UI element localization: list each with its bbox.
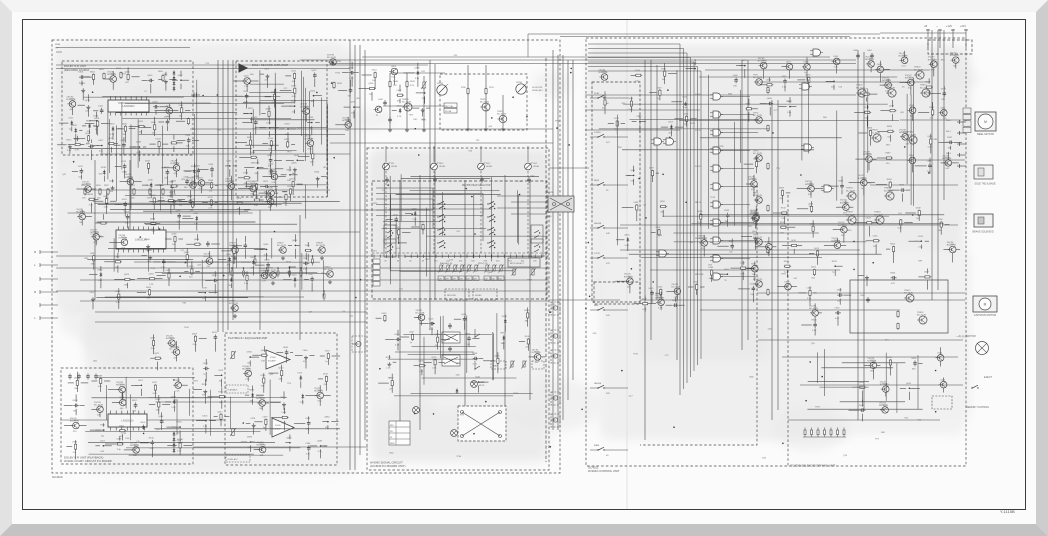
wire bbox=[80, 404, 85, 406]
transistor TR6167 bbox=[196, 180, 204, 187]
wire bbox=[114, 278, 124, 280]
wire bbox=[92, 145, 99, 147]
wire bbox=[124, 208, 126, 216]
wire bbox=[118, 288, 120, 293]
wire bbox=[180, 84, 182, 90]
wire bbox=[218, 259, 226, 261]
svg-text:REC: REC bbox=[439, 163, 444, 165]
wire bbox=[863, 186, 865, 195]
wire bbox=[243, 113, 248, 115]
frame left band bbox=[0, 0, 12, 536]
svg-text:D658: D658 bbox=[804, 62, 810, 64]
wire bbox=[238, 188, 250, 190]
eq trimmer VR50 bbox=[484, 265, 490, 281]
wire bbox=[854, 111, 864, 113]
wire bbox=[317, 180, 319, 188]
svg-text:Q622: Q622 bbox=[811, 267, 817, 269]
wire bbox=[311, 283, 313, 292]
wire bbox=[616, 127, 618, 135]
wire bbox=[260, 248, 266, 250]
wire bbox=[686, 68, 692, 70]
junction bbox=[289, 267, 291, 269]
wire bbox=[760, 103, 767, 105]
wire bbox=[308, 416, 310, 420]
resistor R6179 bbox=[285, 194, 287, 201]
scan blotch bbox=[522, 183, 562, 223]
wire bbox=[744, 69, 746, 78]
wire bbox=[286, 159, 294, 161]
wire bbox=[205, 424, 207, 433]
junction bbox=[266, 249, 268, 251]
wire bbox=[529, 356, 535, 358]
transport switch sub-box bbox=[592, 82, 640, 302]
wire bbox=[468, 342, 470, 347]
resistor R17338 bbox=[527, 338, 529, 345]
svg-text:2.2K: 2.2K bbox=[244, 86, 249, 88]
wire bbox=[928, 78, 930, 83]
wire bbox=[283, 279, 292, 281]
svg-text:Q685: Q685 bbox=[286, 437, 292, 439]
wire bbox=[229, 263, 231, 273]
wire bbox=[129, 185, 131, 189]
svg-text:REW: REW bbox=[390, 443, 395, 445]
junction bbox=[289, 442, 291, 444]
wire bbox=[244, 167, 254, 169]
wire bbox=[82, 92, 84, 101]
svg-text:Q688: Q688 bbox=[74, 378, 80, 380]
linkage tick bbox=[410, 255, 412, 259]
svg-text:BC-317B: BC-317B bbox=[416, 313, 425, 315]
svg-text:D634: D634 bbox=[502, 316, 508, 318]
wire bbox=[105, 78, 110, 80]
svg-text:33K: 33K bbox=[122, 134, 126, 136]
wire bbox=[270, 164, 272, 175]
resistor R10255 bbox=[369, 88, 376, 90]
wire bbox=[158, 200, 165, 202]
svg-text:BC-317B: BC-317B bbox=[917, 314, 926, 316]
wire bbox=[270, 127, 278, 129]
svg-text:R615: R615 bbox=[261, 270, 267, 272]
svg-text:R621: R621 bbox=[151, 122, 157, 124]
svg-text:D639: D639 bbox=[250, 152, 256, 154]
ground bbox=[282, 402, 286, 406]
wire bbox=[117, 253, 119, 259]
svg-text:D697: D697 bbox=[649, 168, 655, 170]
wire bbox=[126, 283, 128, 288]
transistor TR5145 bbox=[124, 174, 133, 185]
svg-text:D620: D620 bbox=[336, 61, 342, 63]
wire bbox=[118, 128, 122, 130]
svg-text:Q640: Q640 bbox=[267, 155, 273, 157]
wire bbox=[376, 204, 483, 206]
resistor R601 bbox=[103, 73, 105, 80]
switch mode F.FWD bbox=[597, 134, 604, 138]
svg-text:Q682: Q682 bbox=[940, 107, 946, 109]
wire bbox=[721, 276, 754, 278]
scan blotch bbox=[658, 160, 766, 184]
capacitor C5139 bbox=[123, 164, 127, 170]
svg-text:S20: S20 bbox=[496, 261, 499, 263]
linkage tick bbox=[491, 255, 493, 259]
wire bbox=[93, 125, 98, 127]
IC IC603 bbox=[108, 411, 147, 431]
junction bbox=[323, 290, 325, 292]
wire bbox=[887, 79, 889, 82]
module box: left main board outline bbox=[52, 40, 560, 473]
svg-text:S14: S14 bbox=[459, 261, 462, 263]
wire bbox=[930, 93, 941, 95]
junction bbox=[250, 441, 252, 443]
svg-text:C661: C661 bbox=[766, 79, 772, 81]
wire bbox=[422, 230, 424, 234]
wire bbox=[166, 176, 168, 185]
diode D5138 bbox=[103, 170, 106, 175]
svg-text:R638: R638 bbox=[525, 336, 531, 338]
potentiometer VR301 level bbox=[383, 162, 391, 170]
wire bbox=[788, 419, 940, 421]
svg-text:D684: D684 bbox=[145, 239, 151, 241]
svg-text:C623: C623 bbox=[243, 91, 249, 93]
wire bbox=[83, 76, 90, 78]
svg-text:D661: D661 bbox=[209, 164, 215, 166]
wire bbox=[184, 170, 195, 172]
transistor TR20385 bbox=[899, 129, 908, 140]
junction bbox=[294, 105, 296, 107]
transistor TR20369 bbox=[875, 66, 883, 73]
wire bbox=[162, 404, 170, 406]
wire bbox=[75, 440, 77, 443]
wire bbox=[630, 107, 632, 112]
resistor R20384 bbox=[887, 130, 894, 132]
svg-text:Q643: Q643 bbox=[601, 72, 607, 74]
transistor TR622 driver bbox=[914, 67, 924, 79]
switch mode REW bbox=[597, 182, 604, 186]
svg-text:Q618: Q618 bbox=[393, 214, 399, 216]
svg-text:4.7K: 4.7K bbox=[397, 116, 402, 118]
svg-text:BC-317B: BC-317B bbox=[871, 132, 880, 134]
wire bbox=[167, 261, 175, 263]
wire bbox=[178, 238, 183, 240]
svg-text:2.2K: 2.2K bbox=[116, 302, 121, 304]
svg-text:R641: R641 bbox=[534, 352, 540, 354]
svg-text:D670: D670 bbox=[212, 332, 218, 334]
switch mode REC bbox=[597, 307, 604, 310]
wire bbox=[528, 33, 880, 35]
wire bbox=[926, 29, 930, 31]
svg-text:10K: 10K bbox=[733, 86, 737, 88]
wire bbox=[797, 79, 805, 81]
svg-text:2.2K: 2.2K bbox=[698, 222, 703, 224]
svg-text:10K: 10K bbox=[831, 87, 835, 89]
junction bbox=[269, 127, 271, 129]
output level label box bbox=[226, 455, 250, 462]
svg-text:Q610: Q610 bbox=[85, 100, 91, 102]
supply dashed stub bbox=[928, 40, 972, 54]
capacitor C5137 bbox=[80, 168, 84, 174]
wire bbox=[330, 63, 856, 65]
scan shading bbox=[830, 250, 970, 420]
linkage tick bbox=[485, 255, 487, 259]
svg-text:Q686: Q686 bbox=[927, 136, 933, 138]
wire bbox=[385, 338, 394, 340]
mute switch at 337 bbox=[474, 329, 480, 338]
svg-text:R675: R675 bbox=[281, 397, 287, 399]
wire bbox=[254, 421, 262, 423]
ground bbox=[328, 280, 332, 284]
linkage tick bbox=[509, 255, 511, 259]
svg-text:GC4020 SOLENOID DRIVING UNI: GC4020 SOLENOID DRIVING UNIT bbox=[790, 464, 836, 468]
svg-text:R615: R615 bbox=[218, 391, 224, 393]
svg-text:MAIN: MAIN bbox=[479, 381, 484, 384]
wire bbox=[245, 186, 253, 188]
pin P303 bbox=[373, 270, 380, 275]
wire bbox=[253, 266, 255, 276]
wire bbox=[295, 244, 299, 246]
wire bbox=[404, 72, 415, 74]
wire bbox=[504, 325, 506, 332]
linkage tick bbox=[404, 255, 406, 259]
wire bbox=[398, 236, 400, 239]
svg-text:BC-317B: BC-317B bbox=[497, 114, 506, 116]
svg-text:4.7K: 4.7K bbox=[152, 393, 157, 395]
wire bbox=[104, 261, 114, 263]
wire bbox=[497, 364, 499, 373]
wire bbox=[320, 355, 325, 357]
svg-text:2.2K: 2.2K bbox=[284, 358, 289, 360]
junction bbox=[103, 445, 105, 447]
transistor TR10262 bbox=[342, 117, 351, 128]
svg-text:4.7K: 4.7K bbox=[891, 283, 896, 285]
diode D12271 bbox=[299, 375, 302, 380]
svg-text:Q616: Q616 bbox=[292, 274, 298, 276]
wire bbox=[135, 426, 141, 428]
svg-text:33K: 33K bbox=[323, 384, 327, 386]
svg-text:Q687: Q687 bbox=[317, 441, 323, 443]
wire bbox=[176, 171, 178, 177]
wire bbox=[159, 121, 165, 123]
ground bbox=[203, 390, 207, 394]
wire bbox=[142, 184, 148, 186]
svg-text:C691: C691 bbox=[138, 380, 144, 382]
wire bbox=[806, 57, 808, 63]
wire bbox=[300, 59, 856, 61]
svg-text:Q638: Q638 bbox=[307, 138, 313, 140]
resistor R605 bbox=[162, 75, 164, 82]
wire bbox=[585, 109, 700, 111]
svg-text:D687: D687 bbox=[947, 137, 953, 139]
wire bbox=[72, 170, 78, 172]
wire bbox=[76, 372, 78, 380]
svg-text:2.2K: 2.2K bbox=[303, 269, 308, 271]
wire bbox=[281, 174, 287, 176]
wire bbox=[154, 391, 156, 398]
wire bbox=[288, 128, 296, 130]
wire bbox=[241, 441, 247, 443]
wire bbox=[295, 355, 303, 357]
wire bbox=[943, 30, 945, 200]
resistor R7196 bbox=[191, 268, 193, 275]
wire bbox=[419, 175, 421, 430]
resistor R5156 bbox=[100, 222, 107, 224]
resistor R9236 bbox=[270, 140, 272, 147]
svg-text:R617: R617 bbox=[309, 274, 315, 276]
wire bbox=[721, 258, 750, 260]
wire bbox=[395, 223, 397, 233]
svg-text:R652: R652 bbox=[890, 244, 896, 246]
wire bbox=[690, 58, 692, 378]
wire bbox=[214, 284, 216, 294]
wire bbox=[311, 126, 313, 135]
svg-text:Q628: Q628 bbox=[266, 108, 272, 110]
resistor R625 bbox=[162, 188, 164, 195]
wire bbox=[721, 204, 750, 206]
transistor TR9247 bbox=[247, 181, 256, 192]
svg-text:56K: 56K bbox=[535, 362, 539, 364]
wire bbox=[857, 50, 859, 420]
svg-text:C679: C679 bbox=[262, 416, 268, 418]
resistor R13308 bbox=[116, 443, 123, 445]
junction bbox=[96, 120, 98, 122]
svg-text:Q672: Q672 bbox=[173, 347, 179, 349]
wire bbox=[320, 449, 322, 458]
resistor R76 bbox=[767, 289, 769, 296]
wire bbox=[86, 216, 92, 218]
transistor TR6178 bbox=[265, 194, 274, 205]
svg-text:C611: C611 bbox=[177, 440, 183, 442]
resistor R10256 bbox=[397, 94, 404, 96]
wire bbox=[693, 62, 695, 371]
scan blotch bbox=[506, 378, 602, 432]
wire bbox=[274, 89, 276, 93]
wire bbox=[294, 110, 296, 114]
svg-text:WHB: WHB bbox=[55, 44, 61, 46]
diode D8207 bbox=[228, 257, 231, 262]
wire bbox=[784, 85, 786, 92]
capacitor C8212 bbox=[212, 279, 218, 283]
wire bbox=[233, 80, 244, 82]
resistor R7191 bbox=[186, 254, 188, 261]
wire bbox=[697, 67, 699, 366]
scan blotch bbox=[66, 228, 114, 252]
wire bbox=[131, 384, 138, 386]
svg-text:MUTE FF: MUTE FF bbox=[695, 274, 704, 276]
svg-text:S8: S8 bbox=[422, 261, 424, 263]
capacitor C13297 bbox=[134, 402, 138, 408]
wire bbox=[879, 73, 881, 83]
junction bbox=[180, 79, 182, 81]
head select box B bbox=[473, 289, 497, 300]
linkage tick bbox=[522, 255, 524, 259]
wire bbox=[376, 209, 433, 211]
wire bbox=[191, 261, 193, 268]
svg-text:D683: D683 bbox=[247, 437, 253, 439]
svg-text:D661: D661 bbox=[701, 238, 707, 240]
wire bbox=[97, 127, 99, 135]
wire bbox=[880, 84, 885, 86]
wire bbox=[75, 394, 77, 402]
svg-text:D629: D629 bbox=[291, 101, 297, 103]
wire bbox=[270, 185, 278, 187]
svg-text:Q671: Q671 bbox=[154, 353, 160, 355]
head switch S301 bbox=[487, 201, 495, 209]
wire bbox=[741, 60, 743, 350]
svg-text:C635: C635 bbox=[835, 308, 841, 310]
resistor R16331 bbox=[434, 359, 436, 366]
svg-text:C629: C629 bbox=[642, 298, 648, 300]
svg-text:R607: R607 bbox=[226, 254, 232, 256]
svg-text:C665: C665 bbox=[724, 269, 730, 271]
wire bbox=[100, 278, 102, 288]
svg-text:Q636: Q636 bbox=[268, 138, 274, 140]
linkage tick bbox=[373, 255, 375, 259]
wire bbox=[106, 191, 108, 198]
resistor R7198 bbox=[118, 293, 120, 300]
wire bbox=[338, 89, 347, 91]
svg-text:M: M bbox=[984, 302, 987, 306]
wire bbox=[103, 423, 105, 426]
wire bbox=[157, 275, 166, 277]
capacitor C5147 bbox=[170, 184, 174, 190]
svg-text:4.7K: 4.7K bbox=[177, 451, 182, 453]
wire bbox=[588, 70, 701, 72]
linkage tick bbox=[478, 255, 480, 259]
pin P304 bbox=[373, 276, 380, 281]
wire bbox=[307, 254, 309, 261]
svg-text:2.2K: 2.2K bbox=[67, 150, 72, 152]
svg-text:R665: R665 bbox=[283, 347, 289, 349]
svg-text:LEVEL: LEVEL bbox=[439, 166, 446, 168]
junction bbox=[243, 267, 245, 269]
wire bbox=[952, 29, 954, 48]
svg-text:LM1011N: LM1011N bbox=[123, 104, 135, 108]
svg-text:2.2K: 2.2K bbox=[149, 284, 154, 286]
diode D8208 bbox=[252, 260, 255, 265]
transistor TR2109 bbox=[67, 96, 76, 107]
wire bbox=[386, 219, 393, 221]
svg-text:Q696: Q696 bbox=[119, 397, 125, 399]
resistor R74 bbox=[767, 205, 769, 212]
wire bbox=[99, 413, 101, 418]
svg-text:D645: D645 bbox=[127, 176, 133, 178]
wire bbox=[304, 278, 309, 280]
junction bbox=[311, 122, 313, 124]
svg-text:D633: D633 bbox=[285, 124, 291, 126]
svg-text:D669: D669 bbox=[192, 333, 198, 335]
wire bbox=[866, 116, 868, 127]
svg-text:PLAYBACK: PLAYBACK bbox=[228, 389, 239, 392]
switch mode PAUSE bbox=[597, 385, 604, 388]
svg-text:10K: 10K bbox=[186, 146, 190, 148]
svg-text:C653: C653 bbox=[918, 236, 924, 238]
svg-text:4.7K: 4.7K bbox=[161, 267, 166, 269]
svg-text:R673: R673 bbox=[249, 390, 255, 392]
capacitor C17336 bbox=[467, 336, 471, 342]
resistor R3125 bbox=[171, 142, 178, 144]
wire bbox=[930, 134, 932, 138]
wire bbox=[276, 352, 283, 354]
wire bbox=[376, 193, 483, 195]
wire bbox=[129, 146, 136, 148]
capacitor C5148 bbox=[185, 179, 189, 185]
transistor TR12268 bbox=[242, 366, 251, 377]
memory control box bbox=[932, 396, 952, 409]
junction bbox=[300, 267, 302, 269]
wire bbox=[347, 117, 349, 122]
scan blotch bbox=[761, 148, 825, 194]
transistor TR613 bbox=[324, 267, 333, 278]
wire bbox=[93, 200, 104, 202]
wire bbox=[189, 191, 191, 199]
